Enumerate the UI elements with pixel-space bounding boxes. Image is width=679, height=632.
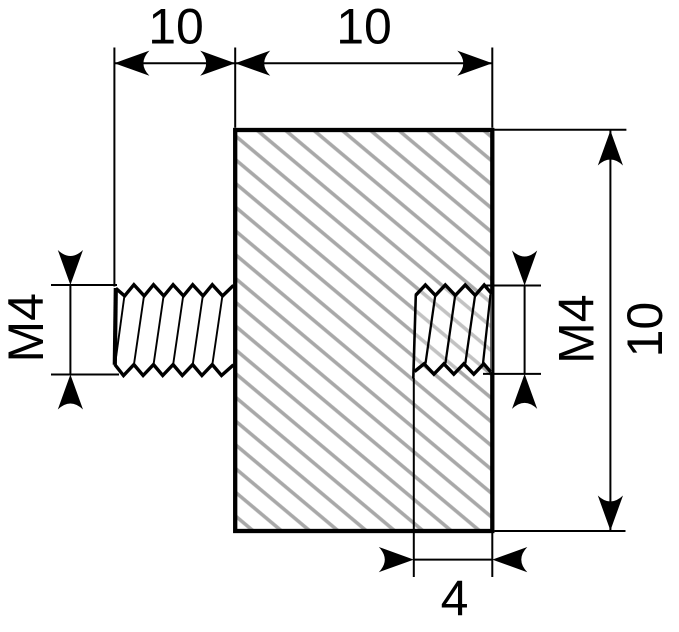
hole interior lightening [413,285,492,379]
right M4 ext line top [483,285,541,287]
threaded hole (right, internal M4 thread) [413,285,492,379]
bottom-4 dim line [414,559,493,561]
right-10 top arrow [598,131,623,166]
left M4 bottom arrow [58,375,83,410]
stud left end [115,288,116,365]
ext line left of top-10 dim [113,48,115,287]
right M4 bottom arrow [512,374,537,409]
right M4 ext line bottom [483,373,541,375]
bottom-4 ext line right [491,533,493,577]
stud top crest zigzag [116,285,234,296]
top-10 middle arrows [200,51,235,76]
top-10 right arrow [457,51,492,76]
svg-text:10: 10 [148,0,204,55]
right-10 dim line [609,130,611,531]
cylinder body (hatched rectangle) [235,130,492,531]
right-10 bottom arrow [598,496,623,531]
arrowheads [58,51,623,573]
svg-text:4: 4 [441,570,469,626]
hole top crest zigzag [416,285,493,295]
right-10 ext line bottom [494,530,625,532]
bottom-4 ext line left [413,378,415,577]
threaded stud (left, external M4 thread) [115,285,234,376]
svg-text:10: 10 [617,302,673,358]
right M4 top arrow [512,251,537,286]
top dim line [114,62,492,64]
left M4 ext line bottom [51,374,119,376]
left M4 top arrow [58,250,83,285]
left M4 ext line top [51,284,117,286]
stud thread helix lines [115,295,223,365]
top-10 left arrow [114,51,149,76]
left M4 dim line [69,285,71,375]
hole left end (blind end) [413,295,416,379]
bottom-4 left arrow [379,547,414,572]
svg-text:M4: M4 [0,293,54,362]
bottom-4 right arrow [492,547,527,572]
svg-text:M4: M4 [548,294,604,363]
right M4 dim line [524,286,526,374]
right-10 ext line top [494,129,626,131]
ext line middle of top-10 dims [234,48,236,128]
dimension lines [51,48,626,578]
hole bottom crest zigzag [415,364,491,374]
svg-text:10: 10 [336,0,392,55]
hole thread helix lines [426,295,491,364]
stud bottom crest zigzag [115,365,234,376]
ext line right of top-10 dims [491,48,493,128]
